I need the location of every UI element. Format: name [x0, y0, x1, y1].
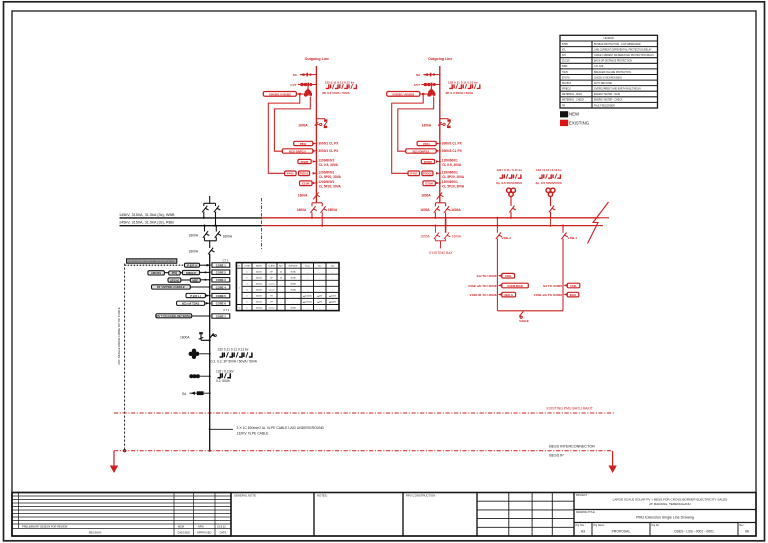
svg-text:1600A: 1600A: [223, 234, 233, 238]
junction node RBB: [214, 225, 216, 227]
svg-text:24C SINGLE MODE FIBRE OPTIC CA: 24C SINGLE MODE FIBRE OPTIC CABLE: [117, 307, 121, 365]
title block outline: [12, 493, 756, 537]
svg-text:AFM: AFM: [198, 524, 203, 528]
join bar: [205, 240, 217, 242]
svg-text:CORE 1: CORE 1: [216, 263, 227, 267]
bay2 lower bus selector left: [420, 217, 461, 256]
svg-text:C.B. FAIL: C.B. FAIL: [594, 65, 605, 68]
svg-text:AT MARANG, TERENGGANU: AT MARANG, TERENGGANU: [649, 502, 691, 506]
relay boxes row2: [148, 271, 165, 275]
svg-text:30VA: 30VA: [291, 289, 297, 292]
busbar WBB red segment: [262, 217, 599, 219]
CT core box CORE 4: [212, 285, 230, 289]
svg-text:BACK-UP DISTANCE PROTECTION: BACK-UP DISTANCE PROTECTION: [594, 60, 632, 63]
svg-text:GENERAL NOTE :: GENERAL NOTE :: [234, 494, 258, 498]
junction node WBB: [203, 217, 205, 219]
svg-text:METERING - MAIN: METERING - MAIN: [562, 93, 582, 96]
dashed pilot wire: [125, 264, 185, 266]
svg-text:OVERCURRENT AND EARTH FAULT RE: OVERCURRENT AND EARTH FAULT RELAY: [594, 88, 641, 91]
svg-text:TELEPROTECTION SIGNALLING EQUI: TELEPROTECTION SIGNALLING EQUIPMENT: [128, 260, 176, 263]
VT bay B on RBB: [536, 168, 563, 218]
svg-text:1600A: 1600A: [180, 336, 190, 340]
svg-text:AUTO RECLOSE: AUTO RECLOSE: [594, 82, 612, 85]
svg-text:FREQ-P: FREQ-P: [186, 271, 196, 275]
svg-text:1600A: 1600A: [189, 250, 199, 254]
CT data table: [236, 263, 339, 311]
svg-text:FAULT RECORDER: FAULT RECORDER: [594, 104, 615, 107]
svg-text:P5Q: P5Q: [172, 271, 177, 275]
rpu construction cell: [476, 493, 478, 537]
legend swatch EXISTING: [560, 120, 568, 126]
bay2 join bar and stub: [435, 240, 445, 242]
cable callout: [210, 428, 233, 430]
svg-text:3000/1: 3000/1: [256, 290, 263, 292]
svg-text:BCU dF TDAS: BCU dF TDAS: [182, 302, 200, 306]
legend table: [560, 35, 658, 108]
relay box P841 row1: [185, 263, 200, 267]
svg-text:▬600V: ▬600V: [329, 296, 337, 298]
svg-text:132KV XLPE CABLE: 132KV XLPE CABLE: [237, 432, 270, 436]
svg-text:VX9L: VX9L: [570, 284, 577, 288]
CT core box CORE 2: [212, 270, 230, 274]
svg-text:Drg Size :: Drg Size :: [576, 524, 586, 527]
bottom tie: [497, 310, 563, 312]
svg-text:FR/BCU: FR/BCU: [562, 89, 571, 91]
junction at boundary: [209, 412, 211, 414]
svg-text:1600A: 1600A: [189, 234, 199, 238]
existing PMU boundary dash-dot line: [114, 412, 615, 414]
svg-text:ENERGY METER - MAIN: ENERGY METER - MAIN: [594, 93, 620, 96]
svg-text:CT 1: CT 1: [223, 258, 229, 262]
svg-text:CORE: CORE: [244, 265, 251, 267]
busbar RBB black segment: [120, 225, 263, 227]
svg-text:1600A: 1600A: [452, 235, 462, 239]
svg-text:▬VK: ▬VK: [317, 302, 322, 304]
svg-text:PROJECT :: PROJECT :: [576, 494, 589, 497]
bay2 lower bus selector right: [445, 218, 447, 233]
legend swatch NEW: [560, 111, 568, 117]
svg-text:VX9L1: VX9L1: [568, 236, 578, 240]
teleprotection equipment box: [127, 259, 177, 263]
svg-text:DRAWING TITLE :: DRAWING TITLE :: [576, 511, 596, 514]
svg-text:P B P U: P B P U: [187, 263, 196, 267]
svg-text:3000/1: 3000/1: [256, 277, 263, 279]
red demarcation dashed line: [261, 198, 263, 249]
svg-text:P B R L I: P B R L I: [190, 294, 201, 298]
svg-text:81U/81O: 81U/81O: [562, 83, 571, 85]
svg-text:50BF: 50BF: [562, 66, 568, 68]
svg-text:CABLE CURRENT DIFFERENTIAL PRO: CABLE CURRENT DIFFERENTIAL PROTECTION RE…: [594, 54, 654, 57]
svg-text:U0008 89AB: U0008 89AB: [507, 284, 523, 288]
svg-text:NEW: NEW: [569, 112, 580, 117]
svg-text:CORE 1: CORE 1: [216, 314, 227, 318]
svg-text:30VA: 30VA: [291, 307, 297, 310]
CT core box CORE 5: [212, 293, 230, 297]
svg-text:REVISION: REVISION: [89, 531, 102, 535]
drawing title cell: [574, 522, 756, 524]
right dropper VX9L1: [562, 226, 564, 233]
svg-text:15.8.22: 15.8.22: [217, 524, 226, 528]
outgoing line bay 1: [263, 57, 356, 227]
end junction: [209, 450, 211, 452]
svg-text:AMU/SV: AMU/SV: [151, 271, 161, 275]
svg-text:PROPOSAL: PROPOSAL: [612, 530, 631, 534]
outgoing line bay 2: [387, 57, 480, 227]
line disconnector 1600A: [209, 254, 211, 451]
svg-text:132 / 0.11kV: 132 / 0.11kV: [216, 369, 235, 373]
svg-text:0A: 0A: [745, 530, 750, 534]
svg-text:BUSBAR PROTECTION - LOW IMPEDA: BUSBAR PROTECTION - LOW IMPEDANCE: [594, 43, 641, 46]
voltage transformer VT1 (5 winding): [189, 349, 200, 359]
svg-text:VX91E: VX91E: [519, 319, 529, 323]
svg-text:METERING - CHECK: METERING - CHECK: [562, 100, 585, 102]
lower selector disconnector left: [203, 225, 205, 227]
svg-text:3000/1: 3000/1: [256, 302, 263, 304]
left drop arrow: [113, 451, 115, 466]
svg-text:Sd TO U0008: Sd TO U0008: [543, 284, 562, 288]
bus break symbol: [588, 202, 609, 244]
svg-text:CORE 3: CORE 3: [216, 278, 227, 282]
right drop arrow: [612, 451, 614, 466]
relay box CT2 row: [156, 314, 192, 318]
relay box row4: [152, 285, 191, 289]
svg-text:PMU Extension Single Line Draw: PMU Extension Single Line Drawing: [636, 516, 694, 520]
svg-text:3000/1: 3000/1: [256, 271, 263, 273]
svg-text:CORE 2: CORE 2: [216, 271, 227, 275]
svg-text:▬VK: ▬VK: [317, 296, 322, 298]
svg-text:CT 2: CT 2: [223, 308, 229, 312]
svg-text:VX0E IB TO U0008: VX0E IB TO U0008: [470, 293, 497, 297]
svg-text:3000/1: 3000/1: [256, 308, 263, 310]
svg-text:0.2, 0.2, 3P 50VA / 50VA / 50V: 0.2, 0.2, 3P 50VA / 50VA / 50VA: [211, 360, 258, 364]
svg-text:30VA: 30VA: [291, 276, 297, 279]
svg-text:VX9L: VX9L: [505, 274, 512, 278]
svg-text:79/25: 79/25: [562, 72, 568, 74]
svg-text:NOTES :: NOTES :: [317, 494, 328, 498]
svg-text:BESS IP: BESS IP: [549, 453, 564, 457]
svg-text:FR: FR: [562, 105, 565, 107]
svg-text:0.2, 50VA: 0.2, 50VA: [216, 379, 231, 383]
revision table: [12, 493, 231, 537]
svg-text:CORE 5: CORE 5: [216, 294, 227, 298]
svg-text:MV TOTALISING METERING: MV TOTALISING METERING: [156, 314, 191, 318]
svg-text:3000/1: 3000/1: [256, 283, 263, 285]
main feeder down: [209, 241, 211, 248]
svg-text:MZM: MZM: [178, 524, 184, 528]
svg-text:CL.0.5: CL.0.5: [268, 290, 275, 292]
busbar WBB black segment: [120, 217, 263, 219]
drawing number row: [592, 523, 738, 537]
svg-text:3000/1: 3000/1: [256, 296, 263, 298]
svg-text:89AF: 89AF: [570, 293, 577, 297]
svg-text:BURDEN: BURDEN: [289, 265, 298, 267]
svg-text:CORE 4: CORE 4: [216, 285, 227, 289]
svg-text:Kal TO U0008: Kal TO U0008: [477, 274, 497, 278]
svg-text:▬600V: ▬600V: [329, 302, 337, 304]
relay box row6: [177, 301, 205, 305]
fork bar: [204, 202, 216, 204]
BESS interconnector dash-dot line: [114, 450, 613, 452]
signature grid: [477, 493, 574, 537]
svg-text:RPU CONSTRUCTION :: RPU CONSTRUCTION :: [406, 494, 437, 498]
svg-text:LEGEND: LEGEND: [604, 37, 614, 40]
CT core box CORE 6: [212, 301, 230, 305]
svg-text:▬100mA: ▬100mA: [303, 295, 312, 298]
fibre optic cable dashed line: [124, 264, 126, 450]
svg-text:VX9L2: VX9L2: [501, 236, 511, 240]
CT2 core box CORE 1: [212, 314, 230, 318]
svg-text:A3: A3: [581, 530, 585, 534]
lower selector disconnector right: [215, 226, 217, 232]
svg-text:RF TAPPING CUBICLE: RF TAPPING CUBICLE: [157, 285, 185, 289]
CT core box CORE 3: [212, 278, 230, 282]
bus selector disconnector WBB: [203, 203, 205, 206]
svg-text:30VA: 30VA: [291, 270, 297, 273]
svg-text:EXISTING: EXISTING: [569, 121, 590, 126]
general note cell: [230, 493, 232, 537]
svg-text:CBES - LSS - 0001 - 0001: CBES - LSS - 0001 - 0001: [674, 530, 714, 534]
svg-text:Drg No :: Drg No :: [652, 524, 661, 527]
left dropper VX9L2: [496, 218, 498, 233]
svg-text:CL.0.2: CL.0.2: [268, 308, 275, 310]
VT bay A on WBB: [496, 168, 523, 218]
svg-text:21/21N: 21/21N: [562, 61, 570, 63]
svg-text:3 X 1C 800mm2 AL XLPE CABLE LA: 3 X 1C 800mm2 AL XLPE CABLE LAID UNDERGR…: [237, 426, 325, 430]
svg-text:ENERGY METER - CHECK: ENERGY METER - CHECK: [594, 100, 623, 102]
svg-text:89ALG: 89ALG: [504, 293, 513, 297]
project cell: [574, 509, 756, 511]
svg-text:132 0.11 0.11 0.11 kv: 132 0.11 0.11 0.11 kv: [217, 348, 248, 352]
svg-text:VX0E a/b TO U0008: VX0E a/b TO U0008: [468, 284, 497, 288]
svg-text:30VA: 30VA: [291, 282, 297, 285]
svg-text:DATE: DATE: [220, 531, 227, 535]
svg-text:87C: 87C: [562, 55, 567, 57]
svg-text:APPROVED: APPROVED: [197, 531, 212, 535]
svg-text:MSE: MSE: [192, 278, 198, 282]
svg-text:1600A: 1600A: [420, 235, 430, 239]
svg-text:CLASS: CLASS: [268, 264, 275, 267]
relay boxes row3: [168, 278, 181, 282]
svg-text:Rev :: Rev :: [740, 525, 746, 527]
svg-text:CHECK SYNCHRONISING: CHECK SYNCHRONISING: [594, 77, 622, 79]
svg-text:PRELIMINARY DESIGN FOR REVIEW: PRELIMINARY DESIGN FOR REVIEW: [22, 524, 68, 528]
junction nodes on feeder: [209, 264, 211, 317]
svg-text:CORE 6: CORE 6: [216, 302, 227, 306]
svg-text:EXISTING PMU BATU RAKIT: EXISTING PMU BATU RAKIT: [547, 407, 594, 411]
svg-text:LINE CURRENT DIFFERENTIAL PROT: LINE CURRENT DIFFERENTIAL PROTECTION REL…: [594, 49, 652, 52]
svg-text:145kV, 3150A, 31.5kA (3s), RBB: 145kV, 3150A, 31.5kA (3s), RBB: [119, 221, 174, 225]
svg-text:Drg Name :: Drg Name :: [594, 524, 606, 527]
svg-text:145kV, 3150A, 31.5kA (3s), WBB: 145kV, 3150A, 31.5kA (3s), WBB: [119, 213, 175, 217]
svg-text:87BB: 87BB: [562, 44, 568, 46]
bay feeder stub: [209, 196, 211, 203]
svg-text:BREAKER FAILURE PROTECTION: BREAKER FAILURE PROTECTION: [594, 71, 631, 74]
relay box row5: [186, 293, 205, 297]
svg-text:▬100mA: ▬100mA: [303, 301, 312, 304]
svg-text:GPS-M: GPS-M: [170, 278, 179, 282]
svg-text:CL.0.5: CL.0.5: [268, 283, 275, 285]
bus selector disconnector RBB: [215, 203, 217, 206]
svg-text:RATIO: RATIO: [256, 264, 263, 267]
svg-text:CHECKED: CHECKED: [177, 531, 190, 535]
busbar RBB red segment: [262, 225, 593, 227]
CT core box CORE 1: [212, 263, 230, 267]
svg-text:BESS INTERCONNECTOR: BESS INTERCONNECTOR: [549, 445, 595, 449]
svg-text:VX0E a/b TO U0008: VX0E a/b TO U0008: [534, 293, 563, 297]
voltage transformer VT2 (3 winding): [189, 374, 200, 378]
VX91E switch: [519, 311, 523, 316]
svg-text:67/67N: 67/67N: [562, 77, 570, 79]
svg-text:EXISTING BAY: EXISTING BAY: [429, 251, 453, 255]
notes cell: [402, 493, 404, 537]
